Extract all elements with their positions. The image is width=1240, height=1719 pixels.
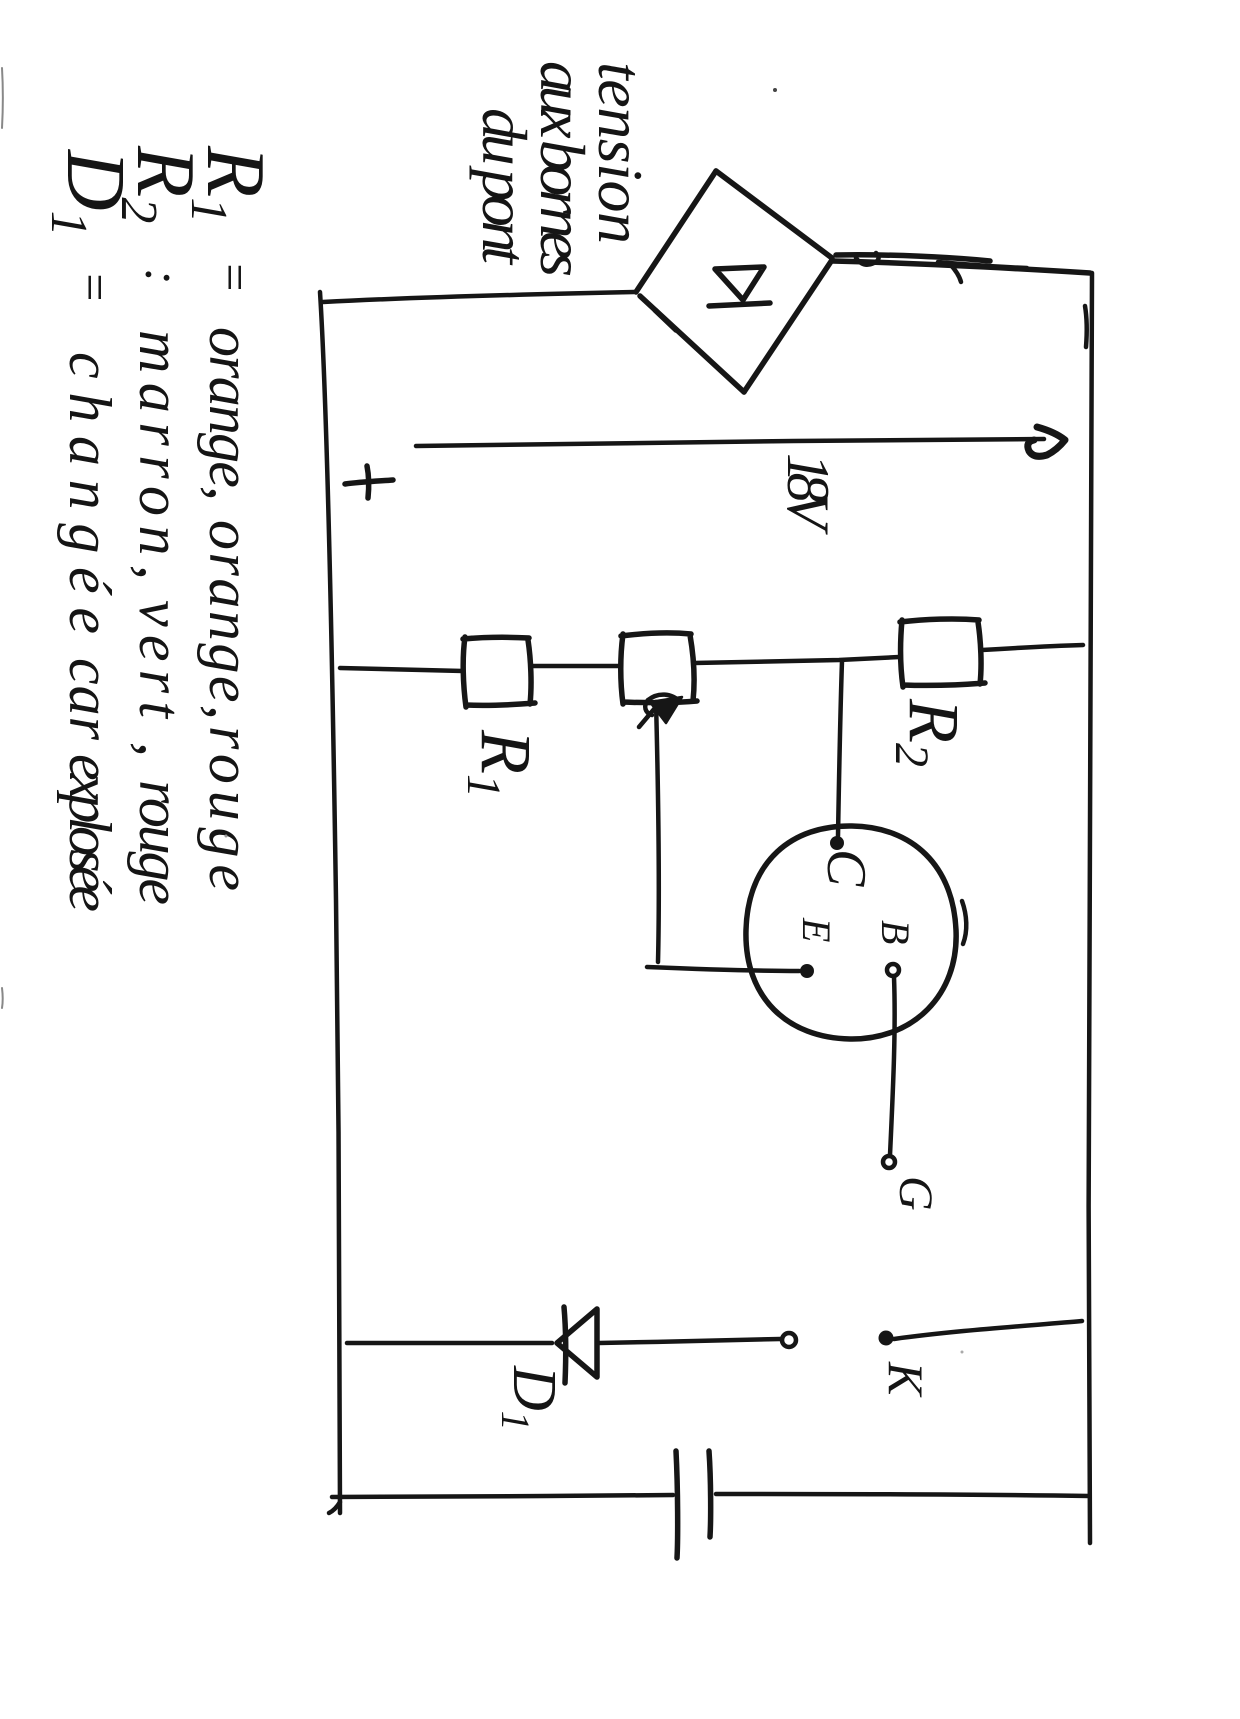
- svg-text:K: K: [878, 1361, 934, 1398]
- svg-text::: :: [135, 268, 191, 285]
- svg-text:explosée: explosée: [57, 754, 123, 912]
- svg-text:vert: vert: [127, 600, 193, 719]
- svg-text:orange,: orange,: [197, 327, 263, 501]
- svg-text:du pont: du pont: [469, 108, 540, 266]
- svg-text:18V: 18V: [775, 453, 841, 535]
- svg-text:G: G: [889, 1176, 942, 1211]
- svg-text:car: car: [57, 658, 123, 741]
- svg-text:=: =: [67, 270, 123, 304]
- svg-text:E: E: [794, 917, 839, 942]
- svg-text:rouge: rouge: [127, 780, 193, 905]
- svg-text:C: C: [815, 849, 877, 887]
- svg-text:B: B: [873, 920, 918, 944]
- svg-text:changée: changée: [57, 352, 123, 634]
- svg-text:,: ,: [127, 742, 193, 757]
- svg-text:marron,: marron,: [127, 330, 193, 580]
- svg-text:=: =: [207, 260, 263, 294]
